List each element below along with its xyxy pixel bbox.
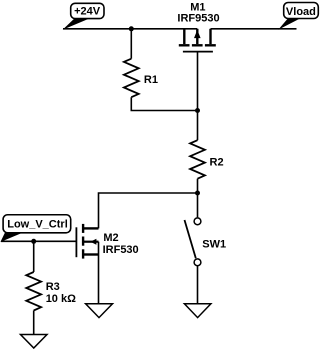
node R3 junction dot xyxy=(31,239,36,244)
svg-text:M2: M2 xyxy=(103,232,118,244)
wire top rail right xyxy=(211,28,297,30)
svg-text:R2: R2 xyxy=(210,156,224,168)
wire node to SW1 xyxy=(197,193,199,217)
wire M1 gate down xyxy=(197,52,199,111)
node drain junction dot xyxy=(195,191,200,196)
ground M2 xyxy=(86,304,113,318)
switch SW1 xyxy=(185,218,201,266)
svg-text:SW1: SW1 xyxy=(202,238,226,250)
value IRF530 xyxy=(103,244,139,256)
svg-text:IRF530: IRF530 xyxy=(103,244,139,256)
svg-text:10 kΩ: 10 kΩ xyxy=(46,293,76,305)
resistor R1 xyxy=(124,59,139,98)
wire R2 top xyxy=(197,111,199,141)
label M2 xyxy=(103,232,118,244)
wire top rail left xyxy=(63,28,197,30)
ground SW1 xyxy=(184,304,211,318)
wire R1 bottom to gate node xyxy=(131,97,197,110)
svg-text:IRF9530: IRF9530 xyxy=(177,13,219,25)
svg-text:R1: R1 xyxy=(144,74,158,86)
value IRF9530 xyxy=(177,13,219,25)
transistor M1 xyxy=(179,29,216,52)
flag Low_V_Ctrl xyxy=(0,215,70,242)
label M1 xyxy=(190,2,205,14)
wire R2 bottom xyxy=(197,179,199,193)
svg-text:Vload: Vload xyxy=(286,6,316,18)
flag Vload xyxy=(278,3,318,30)
label R2 xyxy=(210,156,224,168)
resistor R2 xyxy=(190,140,205,178)
svg-text:+24V: +24V xyxy=(74,6,101,18)
wire R3 bottom to ground xyxy=(33,311,35,335)
svg-text:Low_V_Ctrl: Low_V_Ctrl xyxy=(7,218,68,230)
wire M2 source to ground xyxy=(98,255,100,304)
resistor R3 xyxy=(26,272,41,310)
node +24V junction dot xyxy=(129,26,134,31)
ground R3 xyxy=(21,335,48,349)
svg-text:R3: R3 xyxy=(46,281,60,293)
value 10 kOhm xyxy=(46,293,76,305)
node gate junction dot xyxy=(195,108,200,113)
wire R1 top xyxy=(130,29,132,59)
transistor M2 xyxy=(76,224,98,259)
wire R3 top xyxy=(33,241,35,272)
wire node to M2 drain xyxy=(99,193,198,228)
wire Low_V_Ctrl to M2 gate xyxy=(1,240,76,242)
label R3 xyxy=(46,281,60,293)
label R1 xyxy=(144,74,158,86)
wire SW1 to ground xyxy=(197,266,199,304)
label SW1 xyxy=(202,238,226,250)
flag +24V xyxy=(63,3,104,29)
